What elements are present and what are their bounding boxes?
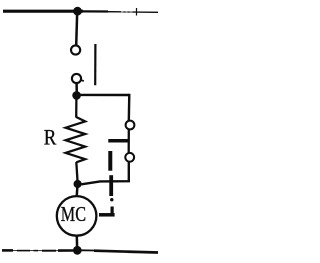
wire: top supply bus, faded right section — [83, 8, 158, 16]
contact circle upper (centrifugal switch) — [126, 121, 135, 130]
wire: node A down to switch upper terminal — [76, 12, 77, 46]
node D: junction of motor lead and bottom bus — [73, 246, 82, 255]
motor MC circle — [57, 196, 97, 236]
mechanical linkage dashed line, dash 2 — [109, 175, 113, 196]
switch S hinge stub — [81, 79, 84, 82]
wire: lower contact down and left to node C — [82, 162, 129, 184]
wire: right branch down to upper contact — [128, 94, 131, 121]
switch S blade (open position) — [94, 44, 96, 85]
wire: motor to bottom bus — [76, 237, 79, 251]
mechanical linkage dashed line, dash 1 — [108, 151, 112, 171]
wire: node C to motor — [76, 186, 79, 196]
motor shaft stub — [99, 213, 115, 217]
svg-text:MC: MC — [61, 202, 86, 226]
mechanical linkage dashed line, dash 3 — [110, 207, 113, 215]
wire: bottom return bus, faded left section — [2, 249, 73, 251]
wire: node B down to resistor — [75, 98, 78, 118]
wire: bottom return bus, right section — [82, 250, 159, 252]
mechanical linkage dashed line, dot — [110, 198, 113, 201]
contact circle lower (centrifugal switch) — [125, 153, 134, 162]
svg-text:R: R — [44, 124, 57, 149]
node A: junction of bus and switch branch — [73, 7, 82, 16]
resistor R zigzag — [66, 117, 86, 162]
wire: top supply bus, solid left section — [3, 10, 83, 13]
wire: switch lower terminal to node B — [75, 84, 78, 96]
switch S lower terminal circle — [72, 74, 81, 83]
switch S upper terminal circle — [71, 45, 80, 54]
wire: resistor to node C — [76, 162, 77, 181]
wire: node B to right branch, top horizontal — [79, 94, 130, 96]
switch arm bar of centrifugal contact — [108, 139, 129, 143]
wire: between contact circles — [128, 130, 130, 153]
node C: junction below resistor — [74, 180, 82, 188]
node B: branch split junction — [72, 91, 81, 100]
